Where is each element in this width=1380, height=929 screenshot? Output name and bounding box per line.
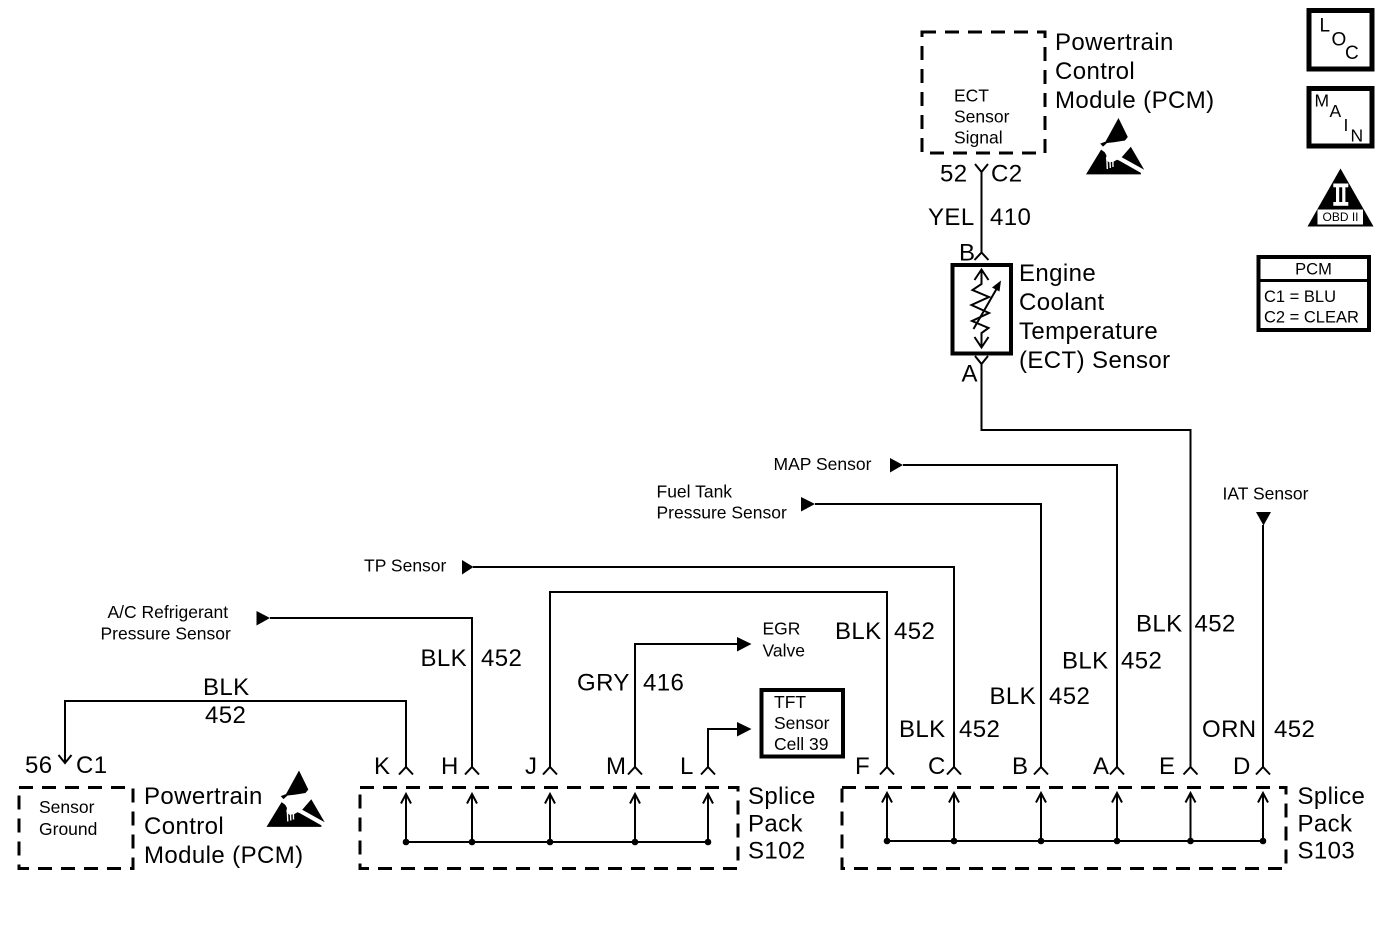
svg-text:BLK: BLK xyxy=(899,716,946,743)
svg-text:J: J xyxy=(525,753,537,780)
svg-text:N: N xyxy=(1351,126,1364,146)
svg-text:Sensor: Sensor xyxy=(954,107,1010,127)
svg-text:C2: C2 xyxy=(991,161,1022,188)
svg-text:ECT: ECT xyxy=(954,86,989,106)
svg-text:PCM: PCM xyxy=(1295,261,1332,279)
svg-text:BLK: BLK xyxy=(1062,648,1109,675)
svg-text:Pack: Pack xyxy=(748,811,804,838)
svg-text:A/C Refrigerant: A/C Refrigerant xyxy=(108,602,229,622)
svg-text:Powertrain: Powertrain xyxy=(1055,29,1174,56)
svg-text:Coolant: Coolant xyxy=(1019,289,1105,316)
svg-text:Control: Control xyxy=(144,813,224,840)
svg-text:Pressure Sensor: Pressure Sensor xyxy=(657,503,788,523)
svg-text:Module (PCM): Module (PCM) xyxy=(1055,87,1215,114)
svg-text:452: 452 xyxy=(1121,648,1162,675)
svg-text:Control: Control xyxy=(1055,58,1135,85)
svg-text:452: 452 xyxy=(1049,683,1090,710)
svg-text:A: A xyxy=(1330,101,1342,121)
svg-text:TFT: TFT xyxy=(774,692,806,712)
svg-text:Powertrain: Powertrain xyxy=(144,783,263,810)
svg-text:BLK: BLK xyxy=(421,645,468,672)
svg-text:M: M xyxy=(1315,91,1330,111)
svg-text:(ECT) Sensor: (ECT) Sensor xyxy=(1019,347,1171,374)
svg-text:Sensor: Sensor xyxy=(39,797,95,817)
svg-text:56: 56 xyxy=(25,752,53,779)
svg-text:BLK: BLK xyxy=(1136,611,1183,638)
svg-text:C: C xyxy=(928,753,946,780)
svg-text:Ground: Ground xyxy=(39,819,97,839)
svg-text:452: 452 xyxy=(959,716,1000,743)
svg-text:452: 452 xyxy=(481,645,522,672)
svg-text:BLK: BLK xyxy=(990,683,1037,710)
svg-text:C1 = BLU: C1 = BLU xyxy=(1264,288,1336,306)
svg-text:YEL: YEL xyxy=(928,204,975,231)
svg-text:Temperature: Temperature xyxy=(1019,318,1158,345)
svg-text:L: L xyxy=(680,753,694,780)
svg-text:Cell 39: Cell 39 xyxy=(774,734,828,754)
svg-text:A: A xyxy=(1093,753,1109,780)
svg-text:OBD II: OBD II xyxy=(1322,210,1358,224)
svg-text:Fuel Tank: Fuel Tank xyxy=(657,482,733,502)
svg-text:B: B xyxy=(1012,753,1028,780)
svg-text:452: 452 xyxy=(1195,611,1236,638)
svg-text:BLK: BLK xyxy=(203,674,250,701)
svg-text:S102: S102 xyxy=(748,838,806,865)
svg-text:MAP Sensor: MAP Sensor xyxy=(774,454,872,474)
svg-text:Sensor: Sensor xyxy=(774,713,830,733)
svg-text:E: E xyxy=(1159,753,1175,780)
svg-text:C: C xyxy=(1345,43,1359,64)
svg-text:410: 410 xyxy=(990,204,1031,231)
svg-text:Splice: Splice xyxy=(1298,783,1366,810)
svg-text:52: 52 xyxy=(940,161,968,188)
svg-text:C1: C1 xyxy=(76,752,107,779)
svg-text:B: B xyxy=(959,240,975,267)
svg-text:IAT Sensor: IAT Sensor xyxy=(1223,484,1309,504)
svg-text:ORN: ORN xyxy=(1202,716,1257,743)
svg-text:C2 = CLEAR: C2 = CLEAR xyxy=(1264,309,1359,327)
svg-text:Module (PCM): Module (PCM) xyxy=(144,842,304,869)
svg-text:452: 452 xyxy=(894,618,935,645)
svg-text:K: K xyxy=(374,753,390,780)
svg-text:Pressure Sensor: Pressure Sensor xyxy=(101,624,232,644)
svg-text:I: I xyxy=(1344,115,1349,135)
svg-text:D: D xyxy=(1233,753,1251,780)
svg-text:Engine: Engine xyxy=(1019,260,1096,287)
svg-text:416: 416 xyxy=(643,670,684,697)
svg-text:H: H xyxy=(441,753,459,780)
svg-text:TP Sensor: TP Sensor xyxy=(364,556,447,576)
svg-text:EGR: EGR xyxy=(763,619,801,639)
svg-text:Signal: Signal xyxy=(954,128,1003,148)
svg-text:M: M xyxy=(606,753,626,780)
svg-text:452: 452 xyxy=(1274,716,1315,743)
svg-text:GRY: GRY xyxy=(577,670,630,697)
svg-text:S103: S103 xyxy=(1298,838,1356,865)
svg-text:Splice: Splice xyxy=(748,783,816,810)
svg-text:Valve: Valve xyxy=(763,641,805,661)
svg-text:A: A xyxy=(962,361,978,388)
svg-text:L: L xyxy=(1320,16,1331,37)
svg-text:Pack: Pack xyxy=(1298,811,1354,838)
svg-text:452: 452 xyxy=(205,702,246,729)
svg-text:BLK: BLK xyxy=(835,618,882,645)
svg-text:F: F xyxy=(855,753,870,780)
